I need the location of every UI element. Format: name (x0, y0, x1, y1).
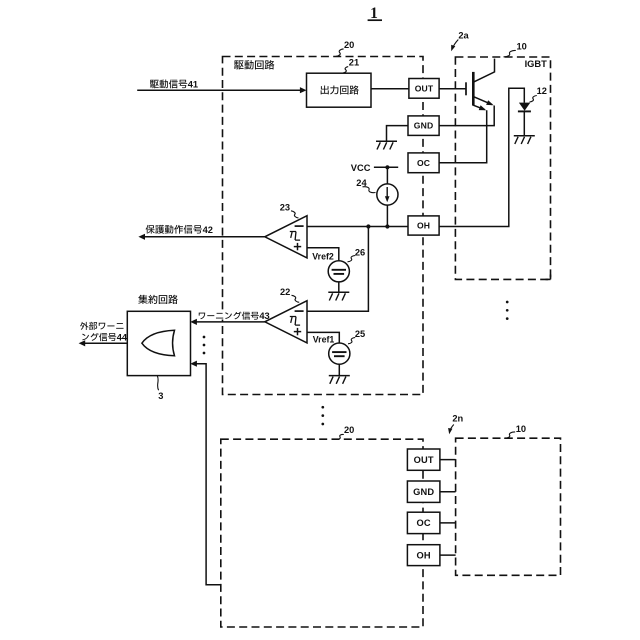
current source 24 arrow (386, 187, 388, 199)
svg-text:12: 12 (537, 86, 547, 96)
pin OC (top) (408, 153, 439, 173)
svg-text:10: 10 (516, 424, 526, 434)
drive circuit block 20 (dashed box) (223, 57, 424, 395)
pin GND (lower) (407, 481, 440, 502)
label 出力回路 (output circuit) (321, 86, 329, 95)
ground symbol under Vref1 (329, 375, 350, 377)
svg-text:2a: 2a (458, 31, 469, 41)
label 駆動信号41 (drive signal 41) (150, 80, 159, 88)
label 保護動作信号42 (protection operation signal 42) (146, 225, 155, 234)
reference 2n leader arrow (450, 425, 454, 432)
wire OUT to IGBT gate (439, 88, 466, 90)
current source 24 circle (377, 184, 398, 205)
wire lower block warning to aggregation circuit (193, 364, 221, 585)
svg-text:43: 43 (259, 311, 269, 321)
pin OC (lower) (407, 512, 440, 533)
diode 12 cathode lead (523, 111, 525, 135)
arrowhead external warning signal 44 (79, 340, 86, 346)
pin OUT (top) (409, 79, 439, 99)
svg-text:20: 20 (344, 40, 354, 50)
wire emitter to GND pin (439, 106, 494, 126)
voltage source Vref1 (329, 343, 350, 364)
ellipsis dots (more warning signals) (203, 336, 206, 339)
reference numeral 23 leader (291, 211, 299, 218)
reference numeral 24 leader (363, 187, 376, 193)
ground symbol under diode 12 (514, 135, 535, 137)
svg-text:20: 20 (344, 425, 354, 435)
reference numeral 10 leader (top) (504, 50, 516, 56)
svg-text:44: 44 (117, 332, 128, 342)
pin OH (lower) (407, 545, 440, 566)
svg-text:OUT: OUT (414, 455, 434, 465)
drive circuit block 20 (lower, dashed) (221, 439, 423, 627)
reference numeral 20 leader (336, 49, 344, 57)
wire comparator 22 plus input to Vref1 (307, 332, 339, 343)
ellipsis dots (more modules) (506, 301, 509, 304)
svg-text:23: 23 (280, 202, 290, 212)
svg-text:OH: OH (417, 550, 431, 560)
stub GND to IGBT module (lower) (440, 491, 456, 493)
svg-text:26: 26 (355, 247, 365, 257)
IGBT gate bar (465, 82, 467, 95)
wire OH net to comparator 22 (307, 227, 368, 312)
wire VCC to current source (386, 167, 388, 184)
svg-text:2n: 2n (452, 414, 463, 424)
wire OH net (307, 226, 408, 228)
wire OH pin to diode net (439, 88, 524, 226)
arrowhead protection signal 42 (138, 234, 145, 240)
wire GND to ground (387, 126, 409, 142)
stub OC to IGBT module (lower) (440, 522, 456, 524)
pin OH (top) (408, 216, 439, 235)
IGBT module dashed box (2a) (455, 57, 550, 279)
ground symbol near GND pin (376, 140, 397, 142)
svg-text:OH: OH (417, 221, 430, 231)
wire drive signal 41 (137, 89, 303, 91)
svg-text:Vref2: Vref2 (312, 251, 334, 261)
reference 2a leader arrow (452, 40, 458, 49)
junction dot VCC (385, 165, 389, 169)
svg-text:GND: GND (413, 487, 434, 497)
label ワーニング信号43 (warning signal 43) (197, 310, 268, 320)
IGBT main emitter (473, 97, 492, 105)
comparator 22 (265, 301, 307, 343)
svg-text:42: 42 (203, 225, 213, 235)
reference numeral 3 leader (157, 376, 158, 390)
svg-text:Vref1: Vref1 (313, 335, 335, 345)
wire sense emitter to OC pin (439, 110, 487, 163)
OR gate symbol (142, 330, 175, 356)
Vref2 ground lead (338, 282, 340, 292)
stub OH to IGBT module (lower) (440, 554, 456, 556)
reference numeral 20 leader (lower) (336, 434, 344, 439)
wire warning signal 43 (193, 321, 265, 323)
wire protection signal 42 (141, 236, 265, 238)
reference numeral 25 leader (348, 338, 355, 344)
svg-text:OUT: OUT (415, 83, 434, 93)
stub OUT to IGBT module (lower) (440, 459, 456, 461)
wire current source to OH net (386, 205, 388, 226)
pin OUT (lower) (407, 449, 440, 470)
svg-text:21: 21 (349, 58, 359, 68)
arrowhead into output circuit (300, 87, 307, 93)
reference numeral 22 leader (292, 295, 300, 302)
svg-text:OC: OC (417, 518, 431, 528)
reference numeral 10 leader (lower) (504, 432, 515, 438)
wire comparator 23 plus input to Vref2 (307, 248, 339, 261)
svg-text:41: 41 (188, 80, 198, 90)
comparator 23 (265, 216, 307, 258)
label 外部ワーニング信号44 (external warning signal 44) (80, 322, 88, 330)
Vref1 ground lead (338, 364, 340, 375)
diode 12 anode triangle (519, 103, 530, 111)
reference numeral 12 leader (530, 96, 537, 103)
wire external warning signal 44 (82, 342, 128, 344)
IGBT body bar (472, 72, 475, 106)
IGBT collector (473, 59, 494, 83)
IGBT sense emitter (473, 105, 484, 109)
VCC rail line (374, 166, 398, 168)
reference numeral 21 leader (343, 67, 348, 73)
label 駆動回路 (drive circuit) (234, 60, 243, 69)
svg-text:22: 22 (280, 287, 290, 297)
svg-text:25: 25 (355, 329, 365, 339)
aggregation circuit box (127, 311, 190, 375)
svg-text:3: 3 (158, 391, 163, 401)
label 集約回路 (aggregation circuit) (138, 295, 147, 304)
pin GND (top) (408, 116, 439, 135)
wire output circuit to OUT (371, 88, 409, 90)
svg-text:10: 10 (517, 42, 527, 52)
svg-text:OC: OC (417, 158, 430, 168)
output circuit box 21 (307, 73, 372, 107)
ellipsis dots between blocks (321, 406, 324, 409)
arrowhead warning signal 43 (190, 319, 197, 325)
arrowhead lower warning into aggregation circuit (190, 361, 197, 367)
diode 12 cathode bar (518, 110, 531, 112)
junction dot current source (385, 224, 389, 228)
svg-text:24: 24 (356, 178, 367, 188)
junction dot comparator branch (366, 224, 370, 228)
reference numeral 26 leader (348, 256, 356, 262)
ground symbol under Vref2 (328, 291, 349, 293)
svg-text:IGBT: IGBT (525, 59, 548, 69)
svg-text:VCC: VCC (351, 163, 371, 173)
svg-text:GND: GND (414, 121, 434, 131)
voltage source Vref2 (328, 261, 349, 282)
IGBT module dashed box (2n) (456, 438, 561, 575)
